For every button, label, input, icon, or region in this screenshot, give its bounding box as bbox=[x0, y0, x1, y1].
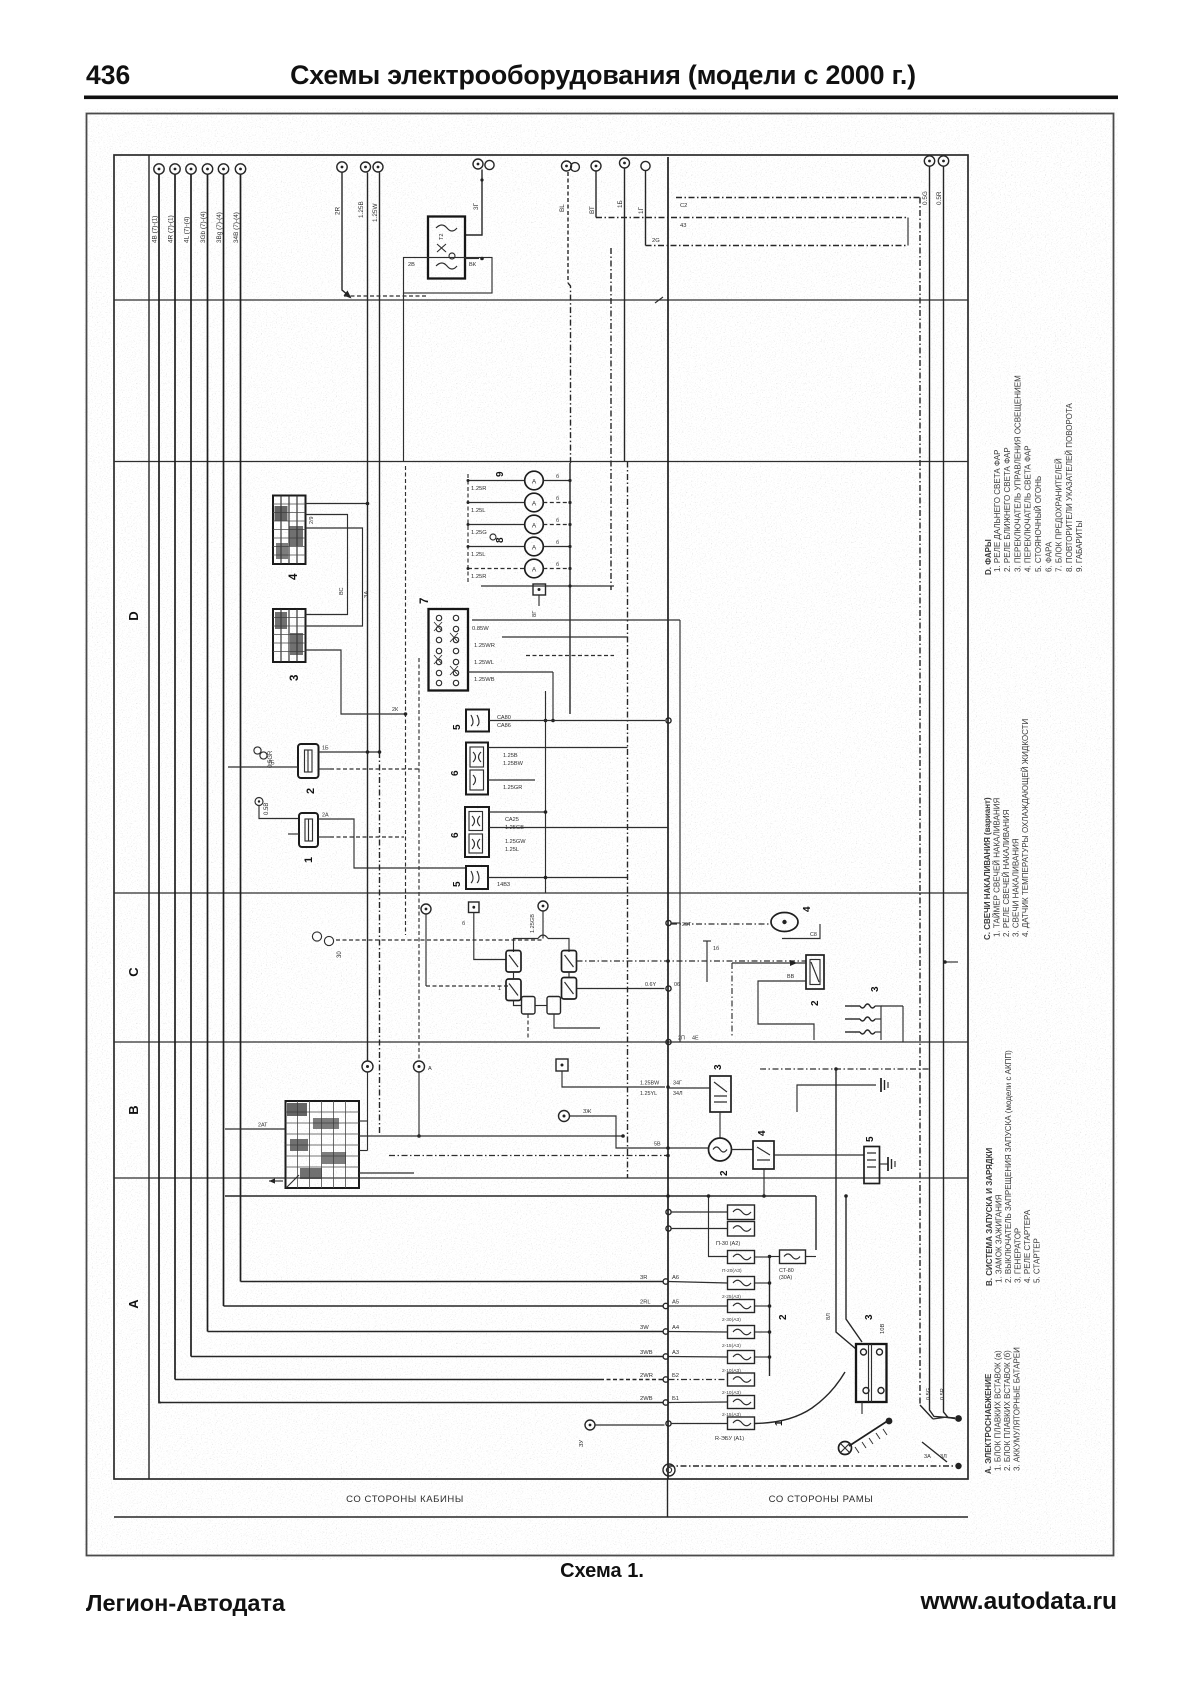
main feed wire y1196 bbox=[225, 1194, 816, 1250]
svg-text:1: 1 bbox=[498, 986, 501, 992]
svg-text:34Л: 34Л bbox=[673, 1091, 683, 1097]
svg-text:Схема 1.: Схема 1. bbox=[560, 1560, 644, 1582]
svg-text:3. АККУМУЛЯТОРНЫЕ БАТАРЕИ: 3. АККУМУЛЯТОРНЫЕ БАТАРЕИ bbox=[1013, 1347, 1022, 1471]
svg-text:б: б bbox=[556, 562, 559, 568]
svg-text:Т2: Т2 bbox=[439, 233, 445, 240]
fuse F3 bbox=[722, 1300, 771, 1324]
wire bus W4 from J4 bbox=[208, 175, 669, 1335]
starter relay box 3 frame bbox=[710, 1076, 731, 1112]
wires 6a outputs bbox=[488, 748, 628, 792]
connector circle J8 bbox=[358, 162, 371, 218]
trunk x628 dash-dot bbox=[627, 462, 629, 1179]
svg-text:2: 2 bbox=[305, 788, 317, 794]
svg-text:4: 4 bbox=[802, 906, 813, 912]
svg-text:А: А bbox=[532, 567, 537, 574]
svg-text:14ВЗ: 14ВЗ bbox=[497, 882, 511, 888]
legend B starting and charging bbox=[985, 1050, 1042, 1286]
svg-text:3: 3 bbox=[289, 675, 301, 681]
outer frame bbox=[87, 114, 1114, 1556]
svg-text:А: А bbox=[428, 1066, 432, 1072]
relay box 5a bbox=[466, 710, 489, 732]
svg-text:2П: 2П bbox=[678, 1036, 685, 1042]
svg-text:4Е: 4Е bbox=[692, 1036, 699, 1042]
svg-text:Б1: Б1 bbox=[672, 1396, 679, 1402]
relay box 6a bbox=[466, 743, 488, 795]
svg-text:2: 2 bbox=[778, 1314, 789, 1320]
svg-text:8: 8 bbox=[495, 537, 506, 543]
svg-text:www.autodata.ru: www.autodata.ru bbox=[920, 1588, 1117, 1615]
row boundary line y300 bbox=[114, 299, 968, 301]
ignition block outputs bbox=[359, 1121, 670, 1173]
svg-text:А: А bbox=[532, 501, 537, 508]
fuse F1 bbox=[722, 1251, 770, 1275]
dashed wire bracket to arrow bbox=[344, 295, 428, 297]
divider junction y923 bbox=[666, 920, 692, 928]
svg-text:3: 3 bbox=[864, 1314, 875, 1320]
svg-text:б: б bbox=[556, 496, 559, 502]
connector circle J1 bbox=[154, 164, 164, 174]
svg-text:СА80: СА80 bbox=[497, 715, 511, 721]
marker lamp L2 bbox=[467, 493, 572, 514]
wire timer to relay2 dash-dot bbox=[577, 959, 807, 963]
charge cable x836 bbox=[826, 1069, 856, 1349]
glow timer terminal T4 bbox=[530, 901, 548, 939]
svg-text:1: 1 bbox=[303, 857, 315, 863]
svg-text:1. РЕЛЕ ДАЛЬНЕГО СВЕТА ФАР: 1. РЕЛЕ ДАЛЬНЕГО СВЕТА ФАР bbox=[993, 450, 1002, 572]
svg-text:СА25: СА25 bbox=[505, 817, 519, 823]
glow relay 2 frame bbox=[806, 955, 824, 989]
svg-text:2-30(АЗ): 2-30(АЗ) bbox=[722, 1317, 741, 1323]
battery sense wire x929 bbox=[930, 167, 956, 1419]
fuse F8 bbox=[728, 1417, 755, 1430]
fuse bus vertical bbox=[769, 1257, 771, 1377]
battery ground cable bbox=[849, 1402, 892, 1453]
charge trunk x920 dash-dot bbox=[920, 198, 933, 1420]
svg-text:1. ТАЙМЕР СВЕЧЕЙ НАКАЛИВАНИЯ: 1. ТАЙМЕР СВЕЧЕЙ НАКАЛИВАНИЯ bbox=[993, 798, 1002, 937]
bottom band line bbox=[114, 1516, 968, 1518]
relay box 6b bbox=[465, 807, 489, 857]
ignition lock block 1 bbox=[286, 1101, 360, 1188]
fuse F7 bbox=[722, 1396, 755, 1419]
glow timer drops bbox=[528, 1014, 600, 1040]
row boundary line y461 bbox=[114, 461, 968, 463]
wire 5a output bbox=[489, 715, 671, 729]
svg-text:0.5G: 0.5G bbox=[922, 191, 929, 205]
dashed wire T2 to relay bbox=[426, 985, 509, 987]
svg-text:1. БЛОК ПЛАВКИХ ВСТАВОК (а): 1. БЛОК ПЛАВКИХ ВСТАВОК (а) bbox=[994, 1350, 1003, 1471]
svg-text:43: 43 bbox=[680, 223, 686, 229]
svg-text:3: 3 bbox=[870, 986, 881, 992]
svg-text:4. РЕЛЕ СТАРТЕРА: 4. РЕЛЕ СТАРТЕРА bbox=[1023, 1209, 1032, 1283]
connector pair P1 bbox=[254, 747, 274, 768]
svg-text:4R (7)-(1): 4R (7)-(1) bbox=[168, 215, 175, 243]
fuse F6 bbox=[722, 1373, 755, 1396]
svg-text:6. ФАРА: 6. ФАРА bbox=[1044, 541, 1053, 572]
svg-text:2К: 2К bbox=[392, 707, 399, 713]
row boundary line y893 bbox=[114, 892, 968, 894]
svg-text:2R: 2R bbox=[335, 206, 342, 215]
svg-text:2. БЛОК ПЛАВКИХ ВСТАВОК (б): 2. БЛОК ПЛАВКИХ ВСТАВОК (б) bbox=[1003, 1350, 1012, 1471]
row boundary line y1042 bbox=[114, 1041, 968, 1043]
svg-text:2А: 2А bbox=[322, 813, 329, 819]
glow timer link top bbox=[514, 935, 570, 952]
svg-text:9. ГАБАРИТЫ: 9. ГАБАРИТЫ bbox=[1075, 521, 1084, 573]
svg-text:А5: А5 bbox=[672, 1300, 679, 1306]
fuse F5 bbox=[722, 1351, 771, 1375]
connector symbol at divider bottom bbox=[663, 1464, 675, 1476]
svg-text:2АТ: 2АТ bbox=[258, 1123, 268, 1129]
svg-text:Легион-Автодата: Легион-Автодата bbox=[86, 1590, 286, 1616]
svg-text:4. ДАТЧИК ТЕМПЕРАТУРЫ ОХЛАЖДАЮ: 4. ДАТЧИК ТЕМПЕРАТУРЫ ОХЛАЖДАЮЩЕЙ ЖИДКОС… bbox=[1021, 718, 1030, 937]
coolant sensor 4 bbox=[771, 913, 820, 939]
wire bus W3 from J3 bbox=[191, 175, 669, 1360]
connector circle J4 bbox=[202, 164, 212, 174]
svg-text:6: 6 bbox=[450, 832, 461, 838]
dashed wire x419 bbox=[418, 658, 420, 1061]
fuse F2 bbox=[722, 1277, 771, 1301]
svg-text:ЗЖ: ЗЖ bbox=[583, 1109, 591, 1115]
svg-text:4: 4 bbox=[757, 1130, 768, 1136]
inner schematic frame bbox=[114, 155, 968, 1479]
ground G2 bracket bbox=[797, 1078, 888, 1112]
wire bus W6 from J6 bbox=[241, 175, 669, 1285]
svg-text:1.25WB: 1.25WB bbox=[474, 677, 495, 683]
svg-text:1б: 1б bbox=[713, 946, 719, 952]
relay K1 top cab bbox=[428, 217, 465, 279]
svg-text:СА86: СА86 bbox=[497, 723, 511, 729]
svg-text:2: 2 bbox=[719, 1170, 730, 1176]
battery 3 bbox=[856, 1344, 887, 1402]
svg-text:2В: 2В bbox=[408, 262, 415, 268]
svg-text:0.5G: 0.5G bbox=[926, 1388, 932, 1400]
glow timer relay U1c bbox=[506, 979, 521, 1001]
wires 6b outputs bbox=[489, 810, 668, 853]
svg-text:3W: 3W bbox=[640, 1325, 649, 1331]
header rule bbox=[84, 96, 1118, 100]
svg-text:8. ПОВТОРИТЕЛИ УКАЗАТЕЛЕЙ ПОВО: 8. ПОВТОРИТЕЛИ УКАЗАТЕЛЕЙ ПОВОРОТА bbox=[1065, 402, 1074, 572]
svg-text:1.25GW: 1.25GW bbox=[505, 839, 526, 845]
svg-text:34B (7)-(4): 34B (7)-(4) bbox=[233, 212, 240, 243]
svg-text:(30А): (30А) bbox=[779, 1275, 792, 1281]
wire labels left bus group bbox=[152, 211, 241, 243]
step wire blocks 4-3 inner bbox=[306, 515, 348, 615]
svg-text:1.25GB: 1.25GB bbox=[530, 914, 536, 933]
svg-text:0.5B: 0.5B bbox=[264, 803, 270, 815]
svg-text:П-20(АЗ): П-20(АЗ) bbox=[722, 1268, 742, 1274]
wire 2AT bbox=[225, 1123, 286, 1130]
connector circle J12 bbox=[589, 161, 601, 214]
dashed wire P30 bbox=[336, 939, 543, 941]
relay box 5b bbox=[466, 866, 488, 889]
starter 5 bbox=[864, 1147, 880, 1184]
connector circle J7 bbox=[335, 162, 348, 215]
battery sense junction bbox=[926, 1388, 962, 1422]
wire block4 to trunk bbox=[306, 502, 370, 524]
svg-text:1.25R: 1.25R bbox=[471, 574, 486, 580]
step wire blocks 4-3 outer bbox=[306, 528, 371, 626]
svg-text:1Г: 1Г bbox=[638, 206, 645, 214]
connector circle J11 pair bbox=[559, 161, 579, 212]
svg-text:СО СТОРОНЫ РАМЫ: СО СТОРОНЫ РАМЫ bbox=[769, 1494, 874, 1505]
connector circle J9 bbox=[372, 162, 383, 222]
terminal T1 below lamps bbox=[532, 584, 546, 617]
connector circle J6 bbox=[235, 164, 245, 174]
svg-text:ВВ: ВВ bbox=[787, 974, 795, 980]
svg-text:3. СВЕЧИ НАКАЛИВАНИЯ: 3. СВЕЧИ НАКАЛИВАНИЯ bbox=[1012, 838, 1021, 937]
glow timer terminal T3 bbox=[462, 902, 506, 960]
neutral switch terminal bbox=[559, 1109, 710, 1150]
svg-text:3А: 3А bbox=[924, 1454, 931, 1460]
svg-text:С8: С8 bbox=[810, 932, 817, 938]
svg-text:ЗУ: ЗУ bbox=[579, 1440, 585, 1447]
svg-text:Схемы электрооборудования (мод: Схемы электрооборудования (модели с 2000… bbox=[290, 60, 916, 90]
svg-text:5В: 5В bbox=[654, 1142, 661, 1148]
svg-text:2-15(АЗ): 2-15(АЗ) bbox=[722, 1343, 741, 1349]
connector circle J13 bbox=[617, 158, 630, 208]
svg-text:2G: 2G bbox=[652, 238, 660, 244]
svg-text:1. ЗАМОК ЗАЖИГАНИЯ: 1. ЗАМОК ЗАЖИГАНИЯ bbox=[995, 1194, 1004, 1283]
wire timer lower output bbox=[577, 982, 681, 991]
svg-text:1.25L: 1.25L bbox=[471, 508, 486, 514]
svg-text:А3: А3 bbox=[672, 1350, 679, 1356]
wire block2 left bbox=[228, 761, 419, 770]
svg-text:1.25WL: 1.25WL bbox=[474, 660, 495, 666]
svg-text:1.25B: 1.25B bbox=[358, 201, 365, 218]
dash-dot wire to sensor bbox=[671, 923, 771, 925]
svg-text:1.25R: 1.25R bbox=[471, 486, 486, 492]
svg-text:4. ПЕРЕКЛЮЧАТЕЛЬ СВЕТА ФАР: 4. ПЕРЕКЛЮЧАТЕЛЬ СВЕТА ФАР bbox=[1024, 445, 1033, 572]
svg-text:2: 2 bbox=[810, 1000, 821, 1006]
svg-text:А4: А4 bbox=[672, 1325, 680, 1331]
marker lamp L3 bbox=[467, 515, 572, 536]
wire from J12 bbox=[595, 172, 597, 218]
main divider wire cab/frame bbox=[667, 157, 669, 1479]
connector block 3 dimmer switch bbox=[273, 609, 306, 662]
marker lamp L5 bbox=[467, 559, 572, 580]
svg-text:B: B bbox=[126, 1105, 141, 1114]
battery feed curve bbox=[755, 1372, 846, 1424]
svg-text:D: D bbox=[126, 611, 141, 620]
svg-text:5: 5 bbox=[865, 1136, 876, 1142]
connector block 4 light switch bbox=[273, 496, 306, 565]
wire P2 to block1 bbox=[259, 806, 299, 819]
fusible link block top pair bbox=[716, 1205, 755, 1247]
wire end labels near divider bbox=[640, 1275, 680, 1402]
marker lamp L4 bbox=[467, 537, 572, 558]
svg-text:1.25ВW: 1.25ВW bbox=[640, 1081, 660, 1087]
wire bus W1 from J1 bbox=[159, 175, 669, 1406]
dash-dot trunk y245 bbox=[646, 238, 909, 246]
ground terminal X bbox=[839, 1442, 852, 1455]
generator 2 bbox=[709, 1138, 732, 1161]
svg-text:2WB: 2WB bbox=[640, 1396, 653, 1402]
bulb feed vertical x468 bbox=[467, 474, 469, 584]
wire bus W5 from J5 bbox=[224, 175, 669, 1309]
fuse box 7 bbox=[429, 609, 469, 691]
wire bus W2 from J2 bbox=[175, 175, 669, 1383]
svg-text:C. СВЕЧИ НАКАЛИВАНИЯ (вариант): C. СВЕЧИ НАКАЛИВАНИЯ (вариант) bbox=[983, 797, 992, 940]
glow timer relay U1b bbox=[562, 951, 577, 973]
wire from J9 bbox=[379, 173, 381, 1137]
starter relay 4 bbox=[753, 1141, 774, 1169]
svg-text:А: А bbox=[532, 523, 537, 530]
svg-text:0.85W: 0.85W bbox=[472, 626, 489, 632]
fuse box 7 output wires bbox=[468, 620, 680, 683]
wire 5b output bbox=[488, 876, 628, 888]
fusible link CT-80 bbox=[768, 1250, 816, 1281]
svg-text:7: 7 bbox=[419, 598, 431, 604]
dash-dot wire y1069 bbox=[760, 1067, 930, 1071]
wire from J13 bbox=[624, 169, 626, 462]
wire block1 outputs bbox=[288, 813, 466, 869]
wire block2 feed bbox=[319, 746, 382, 754]
fuse F4 bbox=[722, 1326, 771, 1350]
svg-text:б: б bbox=[556, 540, 559, 546]
svg-text:1.25YL: 1.25YL bbox=[640, 1091, 657, 1097]
trunk x614 dash-dot bbox=[610, 248, 612, 590]
glow timer relay U1a bbox=[506, 951, 521, 973]
svg-text:1Б: 1Б bbox=[322, 746, 329, 752]
svg-text:ВК: ВК bbox=[469, 262, 477, 268]
svg-text:2. РЕЛЕ СВЕЧЕЙ НАКАЛИВАНИЯ: 2. РЕЛЕ СВЕЧЕЙ НАКАЛИВАНИЯ bbox=[1002, 809, 1011, 937]
ground G1 starter bbox=[880, 1157, 896, 1171]
svg-text:1.25W: 1.25W bbox=[372, 203, 379, 222]
glow relay wires bbox=[732, 960, 814, 1040]
divider junctions top fuses bbox=[666, 1209, 709, 1231]
svg-text:3Г: 3Г bbox=[473, 202, 480, 210]
wire y586 bbox=[481, 584, 614, 587]
svg-text:3: 3 bbox=[713, 1064, 724, 1070]
svg-text:2/9: 2/9 bbox=[309, 517, 315, 525]
dash-dot trunk y197 bbox=[676, 198, 920, 210]
svg-text:3. ГЕНЕРАТОР: 3. ГЕНЕРАТОР bbox=[1014, 1228, 1023, 1283]
glow timer relay U1e bbox=[522, 997, 536, 1015]
svg-text:СТ-80: СТ-80 bbox=[779, 1268, 794, 1274]
svg-text:А6: А6 bbox=[672, 1275, 679, 1281]
glow timer terminal T2 bbox=[421, 904, 431, 986]
svg-text:5: 5 bbox=[452, 724, 463, 730]
glow timer relay U1d bbox=[562, 978, 577, 1000]
ignition terminal C1 bbox=[362, 1061, 373, 1151]
svg-text:5. СТАРТЕР: 5. СТАРТЕР bbox=[1033, 1238, 1042, 1283]
connector circle J15 bbox=[922, 156, 935, 205]
svg-text:B. СИСТЕМА ЗАПУСКА И ЗАРЯДКИ: B. СИСТЕМА ЗАПУСКА И ЗАРЯДКИ bbox=[985, 1147, 994, 1286]
svg-text:1.25L: 1.25L bbox=[505, 847, 519, 853]
svg-text:ВС: ВС bbox=[339, 587, 345, 595]
feed to top fuses bbox=[707, 1194, 728, 1256]
svg-text:б: б bbox=[462, 921, 465, 927]
svg-text:б: б bbox=[556, 474, 559, 480]
row label column line bbox=[148, 155, 150, 1479]
wire from J7 with arrow bbox=[342, 173, 352, 299]
svg-text:436: 436 bbox=[86, 60, 130, 90]
svg-text:ВТ: ВТ bbox=[589, 206, 596, 214]
svg-text:10В: 10В bbox=[880, 1324, 886, 1334]
connector circle J3 bbox=[186, 164, 196, 174]
svg-text:A. ЭЛЕКТРОСНАБЖЕНИЕ: A. ЭЛЕКТРОСНАБЖЕНИЕ bbox=[984, 1373, 993, 1474]
link vertical x553 bbox=[551, 672, 555, 722]
svg-text:3. ПЕРЕКЛЮЧАТЕЛЬ УПРАВЛЕНИЯ ОС: 3. ПЕРЕКЛЮЧАТЕЛЬ УПРАВЛЕНИЯ ОСВЕЩЕНИЕМ bbox=[1013, 375, 1022, 572]
svg-text:30: 30 bbox=[337, 951, 343, 958]
svg-text:4B (7)-(1): 4B (7)-(1) bbox=[152, 216, 159, 243]
connector circle J16 bbox=[936, 156, 949, 205]
connector circle J5 bbox=[218, 164, 228, 174]
label 1 ignition lock bbox=[269, 1178, 283, 1183]
svg-text:A: A bbox=[126, 1299, 141, 1309]
wire from bracket down bbox=[403, 293, 405, 462]
svg-text:0.5R: 0.5R bbox=[936, 191, 943, 205]
svg-text:1Б: 1Б bbox=[617, 200, 624, 208]
wire block3 lower to node bbox=[306, 650, 408, 716]
svg-text:1.25GR: 1.25GR bbox=[503, 785, 522, 791]
svg-text:4: 4 bbox=[288, 573, 300, 580]
glow timer relay U1f bbox=[547, 997, 561, 1015]
svg-text:А: А bbox=[532, 545, 537, 552]
svg-text:3R: 3R bbox=[640, 1275, 647, 1281]
glow plugs 3 bbox=[845, 1004, 903, 1042]
dashed wire x405 bbox=[405, 466, 407, 935]
stub terminal row C frame bbox=[703, 941, 719, 982]
svg-text:С2: С2 bbox=[680, 203, 687, 209]
svg-text:R-ЭБУ (А1): R-ЭБУ (А1) bbox=[715, 1436, 744, 1442]
svg-text:29Т: 29Т bbox=[682, 922, 692, 928]
relay K1 bracket bbox=[404, 257, 493, 293]
svg-text:3Л: 3Л bbox=[940, 1454, 947, 1460]
wire from J14 bbox=[645, 171, 647, 246]
link vertical x545 bbox=[544, 691, 548, 893]
svg-text:5: 5 bbox=[452, 881, 463, 887]
svg-text:3Bg (7)-(4): 3Bg (7)-(4) bbox=[216, 212, 223, 243]
svg-text:06: 06 bbox=[674, 982, 680, 988]
junction x945 y962 bbox=[943, 960, 958, 964]
glow timer links bbox=[498, 972, 569, 1006]
svg-text:3Gb (7)-(4): 3Gb (7)-(4) bbox=[200, 211, 207, 243]
wire generator to relay4 bbox=[732, 1149, 754, 1151]
svg-text:6: 6 bbox=[450, 770, 461, 776]
svg-text:8Г: 8Г bbox=[532, 610, 538, 617]
wire from J11 bbox=[568, 172, 571, 463]
wire from J8 long vertical bbox=[367, 173, 369, 1061]
start terminal T5 bbox=[556, 1059, 683, 1097]
row boundary line y1178 bbox=[114, 1177, 968, 1179]
bottom band divider bbox=[667, 1479, 669, 1517]
svg-text:СО СТОРОНЫ КАБИНЫ: СО СТОРОНЫ КАБИНЫ bbox=[346, 1494, 464, 1505]
staircase wires into fuses bbox=[669, 1282, 728, 1403]
svg-text:0.5R: 0.5R bbox=[940, 1388, 946, 1400]
divider junction y1042 bbox=[666, 1036, 699, 1045]
dash-dot trunk y217 bbox=[596, 218, 908, 246]
fuse block 2 cab bbox=[298, 744, 319, 778]
legend D headlamps bbox=[984, 375, 1084, 575]
svg-text:2RL: 2RL bbox=[640, 1300, 651, 1306]
connector circle J2 bbox=[170, 164, 180, 174]
svg-text:2WR: 2WR bbox=[640, 1373, 653, 1379]
svg-text:б: б bbox=[556, 518, 559, 524]
marker lamp L1 bbox=[467, 471, 572, 492]
svg-text:8Л: 8Л bbox=[826, 1313, 832, 1320]
svg-text:ВL: ВL bbox=[559, 204, 566, 212]
svg-text:1.25G: 1.25G bbox=[471, 530, 487, 536]
svg-text:1.25ВW: 1.25ВW bbox=[503, 761, 524, 767]
label 8 bbox=[490, 534, 506, 543]
svg-text:7. БЛОК ПРЕДОХРАНИТЕЛЕЙ: 7. БЛОК ПРЕДОХРАНИТЕЛЕЙ bbox=[1055, 458, 1064, 572]
svg-text:4L (7)-(4): 4L (7)-(4) bbox=[184, 217, 191, 243]
wire relay4 to starter bbox=[762, 1155, 864, 1198]
battery sense wire x943 bbox=[944, 167, 956, 1419]
svg-text:1.25WR: 1.25WR bbox=[474, 643, 495, 649]
frame ground trunk y1466 bbox=[668, 1417, 962, 1469]
trunk x680 bbox=[679, 620, 681, 1042]
